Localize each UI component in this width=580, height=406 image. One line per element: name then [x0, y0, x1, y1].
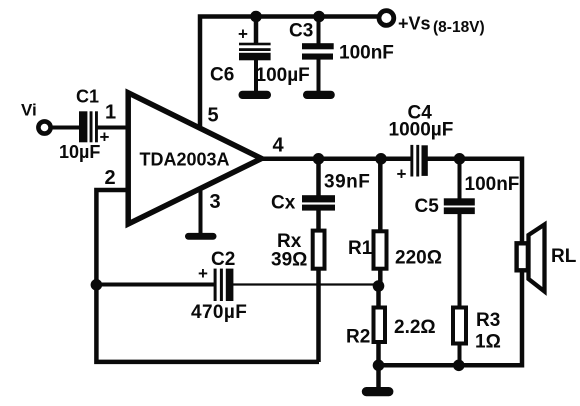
svg-text:+: +	[397, 165, 407, 184]
svg-text:(8-18V): (8-18V)	[433, 19, 485, 36]
svg-text:+: +	[198, 264, 208, 283]
svg-text:C3: C3	[289, 21, 313, 42]
svg-text:39Ω: 39Ω	[271, 250, 307, 271]
svg-text:C6: C6	[210, 65, 234, 86]
svg-text:100µF: 100µF	[256, 65, 310, 86]
svg-text:R2: R2	[346, 327, 370, 348]
svg-text:4: 4	[272, 135, 284, 157]
svg-text:39nF: 39nF	[324, 172, 370, 193]
svg-text:TDA2003A: TDA2003A	[140, 150, 230, 170]
svg-text:2: 2	[104, 167, 115, 189]
svg-text:470µF: 470µF	[191, 302, 247, 323]
svg-text:1000µF: 1000µF	[389, 120, 454, 141]
svg-text:3: 3	[209, 191, 220, 213]
svg-text:Cx: Cx	[271, 193, 296, 214]
svg-text:C5: C5	[415, 196, 440, 217]
svg-text:RL: RL	[551, 246, 577, 267]
svg-text:C1: C1	[76, 87, 99, 107]
svg-text:R3: R3	[476, 310, 500, 331]
svg-text:2.2Ω: 2.2Ω	[394, 317, 436, 338]
svg-text:+Vs: +Vs	[398, 14, 431, 34]
svg-text:220Ω: 220Ω	[395, 248, 442, 269]
svg-text:10µF: 10µF	[59, 142, 100, 162]
svg-text:100nF: 100nF	[339, 43, 394, 64]
svg-text:+: +	[238, 25, 248, 44]
svg-text:R1: R1	[348, 238, 373, 259]
svg-text:Vi: Vi	[21, 101, 37, 120]
svg-text:5: 5	[207, 105, 218, 127]
svg-text:C2: C2	[211, 249, 235, 270]
svg-text:1Ω: 1Ω	[475, 332, 501, 353]
svg-text:1: 1	[105, 102, 116, 124]
svg-text:+: +	[100, 128, 110, 147]
svg-text:100nF: 100nF	[465, 174, 520, 195]
